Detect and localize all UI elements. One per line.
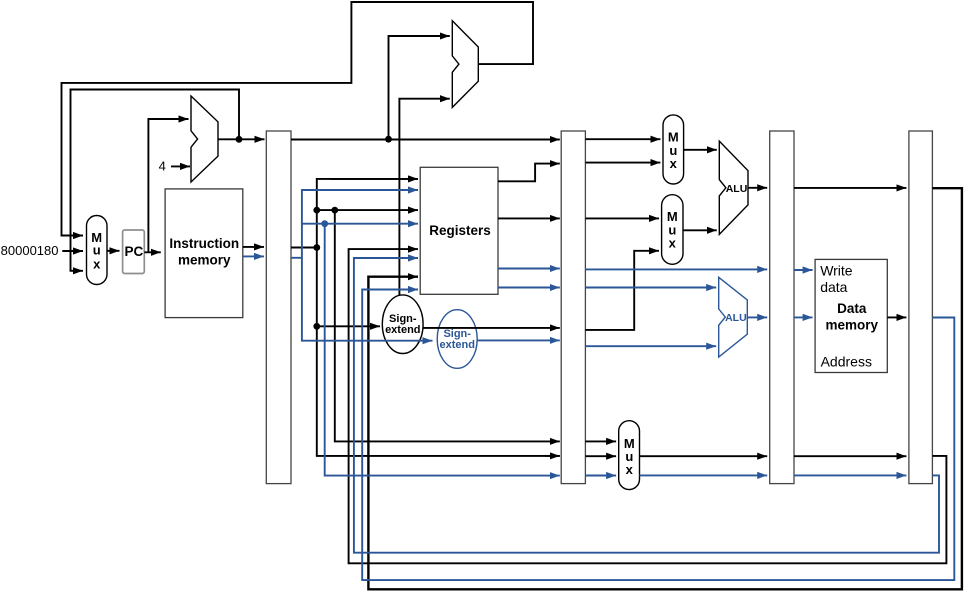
svg-text:ALU: ALU bbox=[725, 312, 747, 324]
svg-text:memory: memory bbox=[826, 318, 879, 333]
svg-text:80000180: 80000180 bbox=[1, 243, 59, 258]
svg-text:x: x bbox=[670, 156, 678, 171]
svg-text:PC: PC bbox=[125, 244, 144, 259]
svg-text:Instruction: Instruction bbox=[169, 236, 239, 251]
svg-text:Address: Address bbox=[821, 353, 872, 369]
svg-text:x: x bbox=[626, 462, 634, 477]
svg-text:x: x bbox=[669, 236, 677, 251]
svg-text:memory: memory bbox=[178, 252, 231, 267]
svg-text:x: x bbox=[93, 256, 101, 271]
svg-text:extend: extend bbox=[385, 324, 420, 336]
svg-text:4: 4 bbox=[159, 158, 166, 173]
svg-text:ALU: ALU bbox=[726, 183, 748, 195]
svg-text:Registers: Registers bbox=[429, 223, 491, 238]
svg-text:Data: Data bbox=[837, 301, 867, 316]
svg-text:Write: Write bbox=[820, 262, 853, 278]
svg-text:data: data bbox=[820, 279, 847, 295]
svg-text:extend: extend bbox=[439, 339, 474, 351]
